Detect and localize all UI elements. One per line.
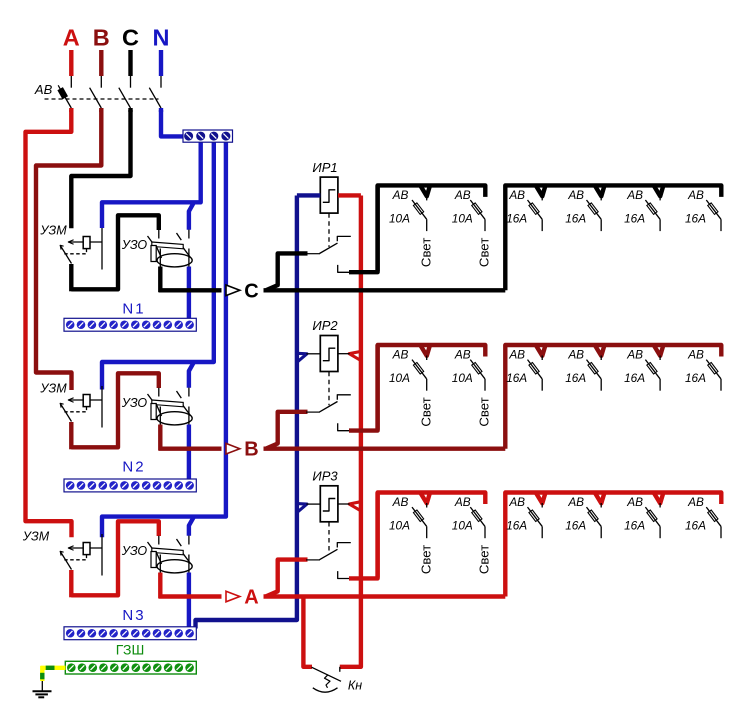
- rcd UZO row3 left pole thin: [158, 536, 160, 545]
- wire phase C below breaker: [128, 108, 132, 112]
- breaker AB row3 #6 blade: [706, 507, 721, 526]
- wire phase N top stub: [159, 50, 163, 76]
- wire row2 phase line left: [159, 447, 222, 451]
- wire IR3 contact input: [266, 560, 307, 597]
- node bus row1 tap 1 pin: [426, 196, 428, 201]
- svg-text:АВ: АВ: [454, 348, 471, 362]
- rcd UZO row3 right pole thin: [188, 536, 190, 545]
- node bus row1 tap 5: [653, 185, 663, 196]
- svg-text:Свет: Свет: [477, 545, 492, 574]
- rcd UZO row2 right pole thin: [188, 388, 190, 397]
- wire phase N to terminal block: [161, 110, 184, 136]
- wire N riser 1 (row1): [102, 140, 201, 228]
- rcd UZO row1 toroid: [157, 254, 192, 267]
- svg-text:УЗМ: УЗМ: [22, 530, 50, 544]
- relay UZM row2 actuator arrowhead: [68, 398, 73, 403]
- svg-text:АВ: АВ: [392, 188, 409, 202]
- wire phase B below breaker: [99, 108, 103, 112]
- wire IR3 coil lead N beak: [297, 504, 307, 513]
- wire phase C top stub: [128, 50, 132, 76]
- node bus row2 tap 1 pin: [426, 356, 428, 361]
- rcd UZO row1 crossbar: [152, 242, 183, 249]
- wire IR2 output to bus: [349, 345, 378, 431]
- svg-text:УЗМ: УЗМ: [39, 382, 67, 396]
- wire IR3 coil lead N: [306, 503, 320, 505]
- breaker AB row2 #4 blade: [587, 360, 602, 379]
- wire UZM row1 output: [69, 264, 73, 291]
- wire N riser3 branch to UZO3: [189, 517, 194, 536]
- rcd UZO row3 crossbar: [152, 548, 183, 555]
- wire UZO row1 neutral out: [187, 267, 191, 321]
- svg-text:N3: N3: [122, 607, 145, 624]
- svg-text:16А: 16А: [624, 211, 645, 225]
- rcd UZO row1 blade right: [177, 233, 182, 240]
- button Kn cap: [313, 688, 338, 692]
- node row2 arrow: [226, 443, 240, 454]
- svg-text:АВ: АВ: [508, 495, 525, 509]
- wire PE horizontal: [41, 666, 66, 670]
- svg-text:10А: 10А: [452, 211, 473, 225]
- svg-text:10А: 10А: [452, 518, 473, 532]
- wire IR3 output to bus: [349, 493, 378, 579]
- wire phase A pin (thin): [70, 76, 72, 88]
- node bus row3 tap 4 pin: [600, 503, 602, 508]
- svg-text:Свет: Свет: [418, 397, 433, 426]
- relay UZM row1 actuator arrowhead: [68, 240, 73, 245]
- relay UZM row2 blade arrow: [60, 403, 63, 407]
- breaker AB row3 #2 load wire: [484, 526, 486, 538]
- node bus row2 tap 5: [653, 345, 663, 356]
- wire IR1 output to bus: [349, 185, 378, 272]
- svg-text:16А: 16А: [685, 518, 706, 532]
- node bus row3 tap 5 pin: [659, 503, 661, 508]
- svg-text:A: A: [63, 25, 80, 51]
- terminal block N screws: [184, 132, 230, 141]
- svg-text:N: N: [153, 25, 170, 51]
- relay UZM row1 blade arrow: [60, 245, 63, 249]
- busbar GZSh screws: [67, 663, 194, 672]
- breaker AB row1 #3 load wire: [541, 219, 543, 231]
- svg-text:АВ: АВ: [626, 188, 643, 202]
- breaker AB pole A blade: [60, 89, 71, 108]
- bus row1 segment1 (lighting): [378, 185, 486, 271]
- svg-text:10А: 10А: [389, 211, 410, 225]
- terminal strip N1: [64, 318, 196, 331]
- node bus row3 tap 4: [595, 492, 605, 503]
- breaker AB row3 #1 blade: [412, 507, 427, 526]
- wire row3 phase line left: [159, 594, 222, 598]
- svg-text:B: B: [93, 25, 110, 51]
- relay UZM row2 contact blade: [60, 403, 71, 421]
- rcd UZO row3 toroid: [157, 560, 192, 573]
- rcd UZO row1 trip box: [151, 246, 156, 262]
- wire phase A top stub: [69, 50, 73, 76]
- relay UZM row1 contact blade: [60, 245, 71, 263]
- svg-text:16А: 16А: [624, 518, 645, 532]
- breaker AB row1 #4 load wire: [600, 219, 602, 231]
- node bus row1 tap 3: [536, 185, 546, 196]
- node bus row3 tap 1: [420, 492, 430, 503]
- busbar GZSh: [65, 661, 196, 674]
- breaker AB row3 #2 blade: [470, 507, 485, 526]
- relay IR2 output hook: [338, 423, 350, 430]
- svg-text:АВ: АВ: [567, 348, 584, 362]
- breaker AB row1 #5 blade: [645, 200, 660, 219]
- svg-text:16А: 16А: [506, 211, 527, 225]
- breaker AB row2 #6 load wire: [720, 379, 722, 391]
- relay IR2 link dashed: [328, 372, 330, 406]
- wire row1 phase line right: [264, 288, 506, 292]
- wire phase C pin (thin): [130, 76, 132, 88]
- node row1 arrow: [226, 285, 240, 296]
- svg-text:Кн: Кн: [348, 679, 362, 693]
- svg-text:АВ: АВ: [508, 348, 525, 362]
- node bus row1 tap 1: [420, 185, 430, 196]
- breaker AB pole N blade: [149, 88, 161, 108]
- terminal strip N3: [64, 627, 196, 640]
- bus row2 segment2 (sockets): [505, 345, 721, 449]
- wire UZM row2 output: [69, 422, 73, 449]
- svg-text:16А: 16А: [685, 371, 706, 385]
- breaker AB row1 #2 blade: [470, 200, 485, 219]
- svg-text:УЗМ: УЗМ: [39, 224, 67, 238]
- svg-text:УЗО: УЗО: [121, 544, 148, 558]
- relay IR1 coil: [320, 177, 338, 213]
- rcd UZO row2 left pole thin: [158, 388, 160, 397]
- wire IR3 coil lead phase: [338, 503, 350, 505]
- breaker AB row1 #6 load wire: [720, 219, 722, 231]
- rcd UZO row3 blade left: [148, 542, 154, 550]
- relay IR1 link dashed: [328, 213, 330, 247]
- breaker AB row1 #2 load wire: [484, 219, 486, 231]
- relay UZM row3 actuator line: [68, 547, 102, 549]
- node bus row3 tap 5: [653, 492, 663, 503]
- svg-text:Свет: Свет: [477, 238, 492, 267]
- wire phase B feeder: [36, 110, 101, 390]
- breaker AB row1 #5 load wire: [659, 219, 661, 231]
- svg-text:ИР2: ИР2: [312, 318, 338, 333]
- svg-text:A: A: [244, 587, 258, 609]
- wire UZM row2 to UZO bridge: [71, 373, 159, 447]
- breaker AB row3 #3 load wire: [541, 526, 543, 538]
- relay IR3 output hook: [338, 571, 350, 578]
- relay IR1 coil step symbol: [323, 190, 336, 203]
- wire IR1 contact input: [266, 253, 307, 290]
- svg-text:16А: 16А: [565, 518, 586, 532]
- svg-text:АВ: АВ: [392, 348, 409, 362]
- rcd UZO row1 left pole thin: [158, 230, 160, 239]
- breaker AB row3 #4 blade: [587, 507, 602, 526]
- relay IR1 output hook: [338, 265, 350, 272]
- svg-text:16А: 16А: [565, 371, 586, 385]
- wire phase N below breaker: [159, 108, 163, 112]
- relay UZM row2 actuator line: [68, 399, 102, 401]
- relay IR2 contact blade: [306, 411, 320, 413]
- node bus row2 tap 4 pin: [600, 356, 602, 361]
- svg-text:АВ: АВ: [626, 495, 643, 509]
- rcd UZO row2 blade right: [177, 391, 182, 398]
- relay IR3 coil: [320, 486, 338, 522]
- relay UZM row2 link dashed: [64, 407, 86, 412]
- svg-text:АВ: АВ: [626, 348, 643, 362]
- breaker AB row3 #3 blade: [528, 507, 543, 526]
- breaker AB pole C blade: [119, 88, 131, 108]
- button Kn right hook: [339, 667, 341, 672]
- svg-text:Свет: Свет: [477, 397, 492, 426]
- svg-text:УЗО: УЗО: [121, 396, 148, 410]
- rcd UZO row1 box diagonal: [156, 246, 161, 258]
- wire PE vertical: [40, 666, 44, 681]
- relay IR1 fixed hook: [337, 236, 351, 241]
- svg-text:АВ: АВ: [687, 348, 704, 362]
- svg-text:Свет: Свет: [418, 545, 433, 574]
- svg-text:ИР3: ИР3: [312, 469, 338, 484]
- wire IR2 coil lead phase beak: [349, 351, 361, 360]
- node bus row1 tap 5 pin: [659, 196, 661, 201]
- rcd UZO row2 crossbar: [152, 400, 183, 407]
- svg-text:16А: 16А: [685, 211, 706, 225]
- relay IR3 contact blade: [306, 559, 320, 561]
- wire UZM row3 to UZO bridge: [71, 521, 159, 595]
- breaker AB row3 #5 load wire: [659, 526, 661, 538]
- wire phase A below breaker: [69, 108, 73, 112]
- rcd UZO row2 box diagonal: [156, 404, 161, 416]
- terminal strip N2 screws: [66, 481, 194, 490]
- svg-text:16А: 16А: [506, 518, 527, 532]
- svg-text:АВ: АВ: [508, 188, 525, 202]
- relay IR3 fixed hook: [337, 543, 351, 548]
- terminal block N (top): [183, 130, 233, 142]
- svg-text:АВ: АВ: [567, 495, 584, 509]
- relay IR2 coil: [320, 336, 338, 372]
- rcd UZO row1 blade left: [148, 236, 154, 244]
- breaker AB pole A handle (filled): [57, 87, 68, 99]
- svg-text:N1: N1: [122, 301, 145, 318]
- terminal strip N3 screws: [66, 629, 194, 638]
- node bus row2 tap 1: [420, 345, 430, 356]
- wire UZO row3 phase out: [158, 573, 162, 599]
- svg-text:Свет: Свет: [418, 238, 433, 267]
- wire UZM row3 output: [69, 570, 73, 597]
- wire phase C to UZM1: [71, 110, 130, 228]
- node bus row2 tap 3 pin: [541, 356, 543, 361]
- svg-text:ГЗШ: ГЗШ: [116, 642, 145, 658]
- button Kn stem zigzag: [325, 675, 331, 688]
- svg-text:16А: 16А: [565, 211, 586, 225]
- svg-text:B: B: [244, 439, 258, 461]
- svg-text:АВ: АВ: [454, 188, 471, 202]
- relay UZM row1 coil: [83, 237, 90, 249]
- rcd UZO row2 toroid: [157, 412, 192, 425]
- ground symbol: [33, 690, 52, 692]
- svg-text:ИР1: ИР1: [312, 160, 337, 175]
- wire UZO row2 neutral out: [187, 425, 191, 482]
- wire N riser 3 (row3): [102, 140, 226, 537]
- wire UZM row3 neutral thin: [101, 534, 103, 576]
- breaker AB row1 #1 blade: [412, 200, 427, 219]
- bus row3 segment2 (sockets): [505, 493, 721, 597]
- svg-text:16А: 16А: [506, 371, 527, 385]
- breaker AB row1 #3 blade: [528, 200, 543, 219]
- breaker AB row2 #1 load wire: [426, 379, 428, 391]
- wire phase N pin (thin): [160, 76, 162, 88]
- breaker AB row2 #6 blade: [706, 360, 721, 379]
- wire phase B top stub: [99, 50, 103, 76]
- rcd UZO row3 wires in toroid: [159, 555, 161, 574]
- wire IR1 coil lead N: [297, 193, 320, 197]
- relay IR3 link dashed: [328, 522, 330, 553]
- breaker AB row1 #4 blade: [587, 200, 602, 219]
- breaker AB row2 #4 load wire: [600, 379, 602, 391]
- breaker AB row1 #6 blade: [706, 200, 721, 219]
- wire IR3 coil lead phase beak: [349, 502, 361, 511]
- breaker AB row2 #2 blade: [470, 360, 485, 379]
- node bus row2 tap 5 pin: [659, 356, 661, 361]
- wire PE to earth thin: [41, 681, 43, 691]
- svg-text:10А: 10А: [389, 518, 410, 532]
- wire navy N feeder (IR coils to N3): [196, 196, 297, 629]
- terminal strip N1 screws: [66, 320, 194, 329]
- breaker AB row1 #1 load wire: [426, 219, 428, 231]
- rcd UZO row2 trip box: [151, 404, 156, 420]
- rcd UZO row3 trip box: [151, 552, 156, 568]
- relay IR2 coil step symbol: [323, 348, 336, 361]
- node bus row1 tap 4: [595, 185, 605, 196]
- bus row1 segment2 (sockets): [505, 185, 721, 290]
- node bus row2 tap 4: [595, 345, 605, 356]
- svg-text:АВ: АВ: [687, 188, 704, 202]
- svg-text:10А: 10А: [389, 371, 410, 385]
- wire phase B pin (thin): [100, 76, 102, 88]
- node bus row3 tap 1 pin: [426, 503, 428, 508]
- node bus row3 tap 3: [536, 492, 546, 503]
- wire IR1 coil lead phase: [338, 193, 361, 197]
- breaker AB row3 #1 load wire: [426, 526, 428, 538]
- relay IR1 contact blade: [306, 253, 320, 255]
- rcd UZO row2 blade left: [148, 394, 154, 402]
- rcd UZO row2 wires in toroid: [159, 407, 161, 426]
- rcd UZO row1 right pole thin: [188, 230, 190, 239]
- svg-text:УЗО: УЗО: [121, 238, 148, 252]
- svg-text:N2: N2: [122, 459, 145, 476]
- relay UZM row2 coil: [83, 395, 90, 407]
- bus row2 segment1 (lighting): [378, 345, 486, 430]
- breaker AB pole B blade: [90, 88, 102, 108]
- relay UZM row3 link dashed: [64, 555, 86, 560]
- relay UZM row3 coil: [83, 543, 90, 555]
- relay UZM row1 actuator line: [68, 241, 102, 243]
- svg-text:10А: 10А: [452, 371, 473, 385]
- button Kn blade: [312, 667, 342, 681]
- breaker AB row2 #3 blade: [528, 360, 543, 379]
- wire phase A feeder: [26, 110, 72, 537]
- svg-text:C: C: [244, 280, 258, 302]
- svg-text:16А: 16А: [624, 371, 645, 385]
- relay UZM row3 contact blade: [60, 551, 71, 569]
- breaker AB row2 #5 blade: [645, 360, 660, 379]
- wire row3 phase line right: [264, 594, 506, 598]
- node bus row2 tap 3: [536, 345, 546, 356]
- wire IR2 contact input: [266, 412, 307, 449]
- breaker AB row2 #3 load wire: [541, 379, 543, 391]
- wire Kn to A line: [303, 597, 312, 667]
- svg-text:АВ: АВ: [454, 495, 471, 509]
- svg-text:АВ: АВ: [687, 495, 704, 509]
- relay UZM row1 link dashed: [64, 249, 86, 254]
- breaker AB row3 #6 load wire: [720, 526, 722, 538]
- relay IR3 coil step symbol: [323, 499, 336, 512]
- node bus row3 tap 3 pin: [541, 503, 543, 508]
- wire UZO row3 neutral out: [187, 573, 191, 629]
- rcd UZO row1 wires in toroid: [159, 249, 161, 268]
- node bus row1 tap 4 pin: [600, 196, 602, 201]
- wire row1 phase line left: [159, 288, 222, 292]
- wire UZM row2 neutral thin: [101, 386, 103, 428]
- wire UZM row1 to UZO bridge: [71, 215, 159, 289]
- wire UZO row2 phase out: [158, 425, 162, 451]
- bus row3 segment1 (lighting): [378, 493, 486, 578]
- node row3 arrow: [226, 591, 240, 602]
- wire IR2 coil lead N: [306, 353, 320, 355]
- wire UZO row1 phase out: [158, 267, 162, 293]
- wire N riser 2 (row2): [102, 140, 214, 390]
- relay UZM row3 actuator arrowhead: [68, 546, 73, 551]
- relay IR2 fixed hook: [337, 395, 351, 400]
- rcd UZO row3 box diagonal: [156, 552, 161, 564]
- rcd UZO row3 blade right: [177, 539, 182, 546]
- breaker AB row2 #2 load wire: [484, 379, 486, 391]
- wire PE vertical green dash: [40, 673, 44, 680]
- breaker AB row2 #1 blade: [412, 360, 427, 379]
- terminal strip N2: [64, 479, 196, 492]
- svg-text:АВ: АВ: [34, 82, 53, 97]
- breaker AB row3 #4 load wire: [600, 526, 602, 538]
- breaker AB row2 #5 load wire: [659, 379, 661, 391]
- wire N riser2 branch to UZO2: [189, 362, 194, 388]
- relay UZM row3 blade arrow: [60, 551, 63, 555]
- wire N riser1 branch to UZO1: [189, 203, 194, 230]
- wire IR2 coil lead phase: [338, 353, 350, 355]
- breaker AB row3 #5 blade: [645, 507, 660, 526]
- wire row2 phase line right: [264, 447, 506, 451]
- wire PE horizontal green dashes: [46, 666, 55, 670]
- wire red control feeder (IR coils to Kn): [340, 196, 361, 667]
- svg-text:C: C: [122, 25, 139, 51]
- svg-text:АВ: АВ: [392, 495, 409, 509]
- node bus row1 tap 3 pin: [541, 196, 543, 201]
- breaker AB mechanical link (dashed): [45, 98, 159, 100]
- wire UZM row1 neutral thin: [101, 228, 103, 270]
- svg-text:АВ: АВ: [567, 188, 584, 202]
- wire IR2 coil lead N beak: [297, 353, 307, 362]
